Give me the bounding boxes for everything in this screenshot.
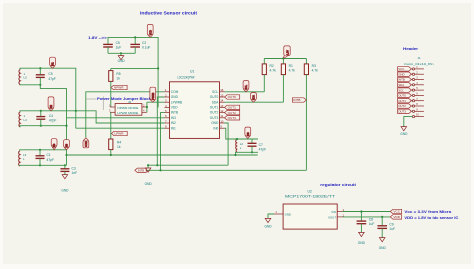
header pin 2 <box>411 70 424 75</box>
ground under C3 <box>61 175 69 193</box>
svg-text:11: 11 <box>220 114 223 118</box>
svg-text:16: 16 <box>220 88 224 92</box>
capacitor C8 <box>357 212 375 233</box>
label OUT2 <box>225 110 240 114</box>
svg-text:R2: R2 <box>270 64 274 68</box>
wire VIN to VCC <box>343 211 391 213</box>
label SDA header <box>398 83 412 87</box>
resistor R3 <box>304 59 318 171</box>
svg-text:4.7k: 4.7k <box>312 69 319 73</box>
svg-text:Conn_01x10_Pin: Conn_01x10_Pin <box>404 62 434 66</box>
inductor L1 <box>19 69 27 84</box>
wire IN3 <box>67 117 165 119</box>
resistor R2 <box>262 59 276 92</box>
svg-text:Header: Header <box>403 47 419 51</box>
label VDD <box>390 215 401 219</box>
regulator pin 3 VIN <box>331 208 344 214</box>
svg-text:OUT1: OUT1 <box>228 106 237 110</box>
jumper block J2 <box>109 100 147 115</box>
svg-text:Vcc = 3.3V from Micro: Vcc = 3.3V from Micro <box>404 210 451 214</box>
svg-text:LPWRB: LPWRB <box>171 100 182 104</box>
svg-text:R4: R4 <box>117 140 121 144</box>
chip right pin names <box>210 90 219 130</box>
ground header <box>400 127 408 137</box>
chip left pin numbers <box>165 88 167 128</box>
junction gnd mid <box>120 52 122 54</box>
svg-text:VCC: VCC <box>398 67 404 71</box>
capacitor C3 <box>60 164 77 175</box>
wire INTB pin5 route <box>161 113 165 171</box>
wire IN0 route <box>225 128 236 139</box>
junction pullup rail <box>282 57 284 59</box>
header pin 9 <box>411 107 424 112</box>
inductor L2 <box>236 139 244 152</box>
label INTB small left <box>135 168 146 172</box>
junction INTB row <box>159 169 161 171</box>
label INTB header <box>398 77 412 81</box>
svg-text:U2: U2 <box>308 190 312 194</box>
wire sensor2 bottom <box>20 126 67 127</box>
flag on sensor3 top junction <box>64 140 70 150</box>
wire reg gnd <box>268 214 274 218</box>
svg-text:1nF: 1nF <box>72 171 78 175</box>
svg-text:GND: GND <box>211 121 219 125</box>
svg-text:OUT2: OUT2 <box>228 111 237 115</box>
label GND header <box>398 72 412 76</box>
svg-text:GND: GND <box>400 132 408 136</box>
svg-text:C7: C7 <box>259 143 263 147</box>
chip left pin names <box>171 90 182 130</box>
flag SDA <box>251 93 257 103</box>
svg-text:10: 10 <box>220 119 224 123</box>
svg-text:GND: GND <box>379 246 387 250</box>
wire cap bottoms <box>108 52 135 54</box>
wire SDA <box>225 101 284 103</box>
svg-text:COM: COM <box>171 90 179 94</box>
wire GND pin2 route <box>157 97 164 165</box>
svg-text:OUT3: OUT3 <box>398 109 406 113</box>
header pin 7 <box>411 97 424 102</box>
header pin 8 <box>411 102 424 107</box>
chip right pin numbers <box>220 88 224 128</box>
svg-text:GND: GND <box>358 241 366 245</box>
inductor L4 <box>19 112 27 127</box>
svg-text:OUT0: OUT0 <box>210 95 219 99</box>
svg-text:VOUT: VOUT <box>328 215 336 219</box>
svg-text:GND: GND <box>398 72 404 76</box>
wire sensor1 bottom <box>20 85 67 166</box>
wire LPWR vertical <box>110 112 112 139</box>
junction C8 <box>360 210 362 212</box>
svg-text:47pF: 47pF <box>48 77 56 81</box>
svg-text:PWRB: PWRB <box>152 92 155 100</box>
svg-text:IN3: IN3 <box>66 143 69 147</box>
svg-text:GND: GND <box>61 189 69 193</box>
wire VOUT to VDD <box>343 216 391 218</box>
svg-text:LDC3114QPWR: LDC3114QPWR <box>178 75 196 79</box>
svg-text:C3: C3 <box>72 166 76 170</box>
svg-text:1uF: 1uF <box>369 222 375 226</box>
capacitor C7 <box>248 139 267 152</box>
svg-text:Inductive Sensor circuit: Inductive Sensor circuit <box>140 11 198 16</box>
svg-text:INTB: INTB <box>171 111 178 115</box>
svg-text:OUT0: OUT0 <box>228 95 237 99</box>
svg-text:47pF: 47pF <box>47 158 55 162</box>
svg-text:OUT1: OUT1 <box>398 99 406 103</box>
svg-text:L4: L4 <box>24 118 28 122</box>
flag on sensor1 top <box>50 57 56 68</box>
svg-text:OUT3: OUT3 <box>228 116 237 120</box>
svg-text:SCL: SCL <box>398 88 404 92</box>
svg-text:VDD: VDD <box>393 215 400 219</box>
svg-text:IN3: IN3 <box>53 143 56 147</box>
svg-text:LPWR: LPWR <box>115 132 125 136</box>
junction common s4 line <box>65 154 67 156</box>
svg-text:IN2: IN2 <box>171 121 176 125</box>
svg-text:OUT3: OUT3 <box>210 116 219 120</box>
label VCC <box>390 209 401 213</box>
capacitor C6 <box>103 37 121 53</box>
svg-text:1k: 1k <box>116 77 120 81</box>
junction GND p2 <box>156 164 158 166</box>
regulator U2 body <box>283 204 337 229</box>
resistor R1 <box>281 59 295 103</box>
svg-text:15: 15 <box>220 93 224 97</box>
svg-text:NPWR MODE: NPWR MODE <box>117 106 138 110</box>
label INTB <box>292 98 306 102</box>
wire jumper common <box>146 102 148 107</box>
header pin 4 <box>411 81 424 86</box>
flag net sensor3 <box>51 139 57 150</box>
svg-text:1uF: 1uF <box>116 45 122 49</box>
junction C1 bottom <box>39 164 41 166</box>
wire IN1 <box>76 127 165 129</box>
junction jumper <box>146 106 148 108</box>
junction C1 top <box>39 149 41 151</box>
svg-text:C9: C9 <box>389 222 393 226</box>
svg-text:OUT2: OUT2 <box>398 104 406 108</box>
svg-text:12: 12 <box>220 109 224 113</box>
svg-text:C2: C2 <box>142 41 146 45</box>
label LPWR <box>111 131 127 135</box>
label OUT3 <box>225 116 240 120</box>
wire header gnd <box>404 117 413 127</box>
wire sensor3 top <box>20 150 67 151</box>
junction C4 top <box>40 110 42 112</box>
svg-text:OUT2: OUT2 <box>210 111 219 115</box>
svg-text:SDA: SDA <box>253 95 256 100</box>
wire GND pin10 route <box>225 123 229 165</box>
svg-text:C6: C6 <box>116 41 120 45</box>
svg-text:regulator circuit: regulator circuit <box>320 183 357 187</box>
svg-text:IN2: IN2 <box>50 104 53 108</box>
ground under C6/C2 <box>118 53 126 63</box>
svg-text:VCC: VCC <box>393 210 400 214</box>
wire INTB bottom <box>146 169 306 171</box>
flag PWRB <box>150 87 156 102</box>
svg-text:1.8V: 1.8V <box>286 50 289 55</box>
junction R4 common <box>110 154 112 156</box>
svg-text:4.7k: 4.7k <box>270 69 277 73</box>
graphic leader dash <box>87 98 97 100</box>
label NPWR <box>111 85 127 89</box>
svg-text:SCL: SCL <box>245 84 248 89</box>
label OUT1 header <box>398 99 412 103</box>
svg-text:IN1: IN1 <box>171 126 176 130</box>
common wire to sensor4 <box>67 154 258 156</box>
header pin 6 <box>411 92 424 97</box>
svg-text:NPWR: NPWR <box>114 86 124 90</box>
svg-text:L5: L5 <box>24 76 28 80</box>
junction C5 top <box>39 67 41 69</box>
svg-text:C4: C4 <box>49 114 53 118</box>
svg-text:OUT0: OUT0 <box>398 94 406 98</box>
svg-text:VDD: VDD <box>149 30 152 35</box>
label OUT0 <box>225 95 240 99</box>
wire GND row <box>148 164 228 166</box>
header pin 3 <box>411 76 424 81</box>
wire LPWRB pin3 <box>147 101 165 103</box>
junction C4 bottom <box>40 125 42 127</box>
svg-text:VDD: VDD <box>171 106 178 110</box>
svg-text:C8: C8 <box>369 218 373 222</box>
flag COM end <box>83 138 89 148</box>
flag 1.8V pullups <box>283 46 290 59</box>
header pin 5 <box>411 86 424 91</box>
svg-text:MCP1700T-1802E/TT: MCP1700T-1802E/TT <box>285 194 335 198</box>
svg-text:IN0: IN0 <box>213 126 218 130</box>
svg-text:IN3: IN3 <box>171 116 176 120</box>
capacitor C5 <box>36 68 56 85</box>
svg-text:J1: J1 <box>418 56 422 60</box>
svg-text:C5: C5 <box>48 72 52 76</box>
sensor4 bottom corner <box>236 152 259 155</box>
svg-text:OUT1: OUT1 <box>210 106 219 110</box>
svg-text:IN0: IN0 <box>247 132 250 136</box>
chip right pins <box>220 92 225 128</box>
svg-text:Power Mode Jumper Block: Power Mode Jumper Block <box>97 97 151 101</box>
svg-text:GND: GND <box>285 212 291 216</box>
pullup rail 1.8V <box>264 58 306 60</box>
svg-text:INTB: INTB <box>138 168 144 172</box>
ground below chip <box>145 165 153 186</box>
svg-text:R1: R1 <box>289 64 293 68</box>
label OUT3 header <box>398 109 412 113</box>
svg-text:COM: COM <box>85 141 88 147</box>
label OUT0 header <box>398 93 412 97</box>
capacitor C1 <box>36 150 55 166</box>
label VCC header <box>398 67 412 71</box>
resistor R5 <box>109 68 121 87</box>
regulator pin 2 VOUT <box>328 213 345 219</box>
svg-text:47pF: 47pF <box>49 119 57 123</box>
wire 1.8V rail <box>108 37 159 107</box>
inductor L3 <box>19 151 27 166</box>
svg-text:C1: C1 <box>47 153 51 157</box>
svg-text:GND: GND <box>145 182 153 186</box>
ground C9 <box>379 238 387 251</box>
label OUT1 <box>225 105 240 109</box>
flag on sensor2 top <box>48 97 54 111</box>
svg-text:VIN: VIN <box>331 210 336 214</box>
svg-text:GND: GND <box>171 95 179 99</box>
svg-text:4.7k: 4.7k <box>289 69 296 73</box>
wire R5 to VDD rail <box>111 67 158 69</box>
header pin 10 <box>412 113 424 118</box>
sensor4 top wire <box>236 138 259 140</box>
capacitor C4 <box>36 111 56 126</box>
svg-text:VDD = 1.8V to ldc sensor IC: VDD = 1.8V to ldc sensor IC <box>404 216 459 220</box>
junction s1 leg s2 top <box>75 110 77 112</box>
svg-text:GND: GND <box>265 225 273 229</box>
flag sensor4 <box>245 127 251 138</box>
svg-text:INTB: INTB <box>293 98 300 102</box>
svg-text:1k: 1k <box>117 145 121 149</box>
junction C9 <box>381 216 383 218</box>
svg-text:SDA: SDA <box>398 83 404 87</box>
chip U1 LDC3114QPWR <box>170 70 220 139</box>
header pin 1 <box>411 65 424 70</box>
junction C7 bottom <box>251 151 253 153</box>
svg-text:R5: R5 <box>116 72 120 76</box>
svg-text:1.8V -->>: 1.8V -->> <box>88 36 107 40</box>
svg-text:47pF: 47pF <box>259 148 267 152</box>
page margin light edges <box>0 0 474 3</box>
junction C5 bottom <box>39 84 41 86</box>
svg-text:LPWR MODE: LPWR MODE <box>117 111 138 115</box>
junction VDD drop <box>157 67 159 69</box>
ground C8 <box>358 232 366 245</box>
regulator pin 1 GND <box>274 210 291 216</box>
junction L2 top <box>236 138 238 140</box>
capacitor C9 <box>377 217 395 238</box>
svg-text:IN1: IN1 <box>52 62 55 66</box>
svg-text:SDA: SDA <box>212 100 219 104</box>
svg-text:14: 14 <box>220 99 224 103</box>
svg-text:R3: R3 <box>312 64 316 68</box>
wire sensor3 bottom <box>20 164 67 167</box>
capacitor C2 <box>130 37 150 53</box>
wire COM to chip <box>86 92 165 138</box>
svg-text:INTB: INTB <box>398 78 405 82</box>
svg-text:13: 13 <box>220 104 224 108</box>
junction C2 rail <box>134 36 136 38</box>
chip left pins <box>165 92 170 128</box>
svg-text:SCL: SCL <box>212 90 218 94</box>
wire SCL <box>225 91 265 93</box>
svg-text:GND: GND <box>118 59 126 63</box>
wire sensor1 top <box>20 68 76 128</box>
svg-text:U1: U1 <box>190 70 194 74</box>
label SCL header <box>398 88 412 92</box>
junction common s2 <box>65 125 67 127</box>
wire sensor2 top <box>20 111 165 123</box>
svg-text:0.1uF: 0.1uF <box>142 45 150 49</box>
svg-text:1uF: 1uF <box>389 227 395 231</box>
graphic leader line <box>102 97 104 111</box>
power flag VDD on rail <box>147 25 153 38</box>
label OUT2 header <box>398 104 412 108</box>
resistor R4 <box>109 139 122 155</box>
flag SCL <box>243 81 249 92</box>
junction GND drop <box>147 164 149 166</box>
ground regulator <box>265 218 273 228</box>
wire NPWR vertical <box>110 88 112 107</box>
